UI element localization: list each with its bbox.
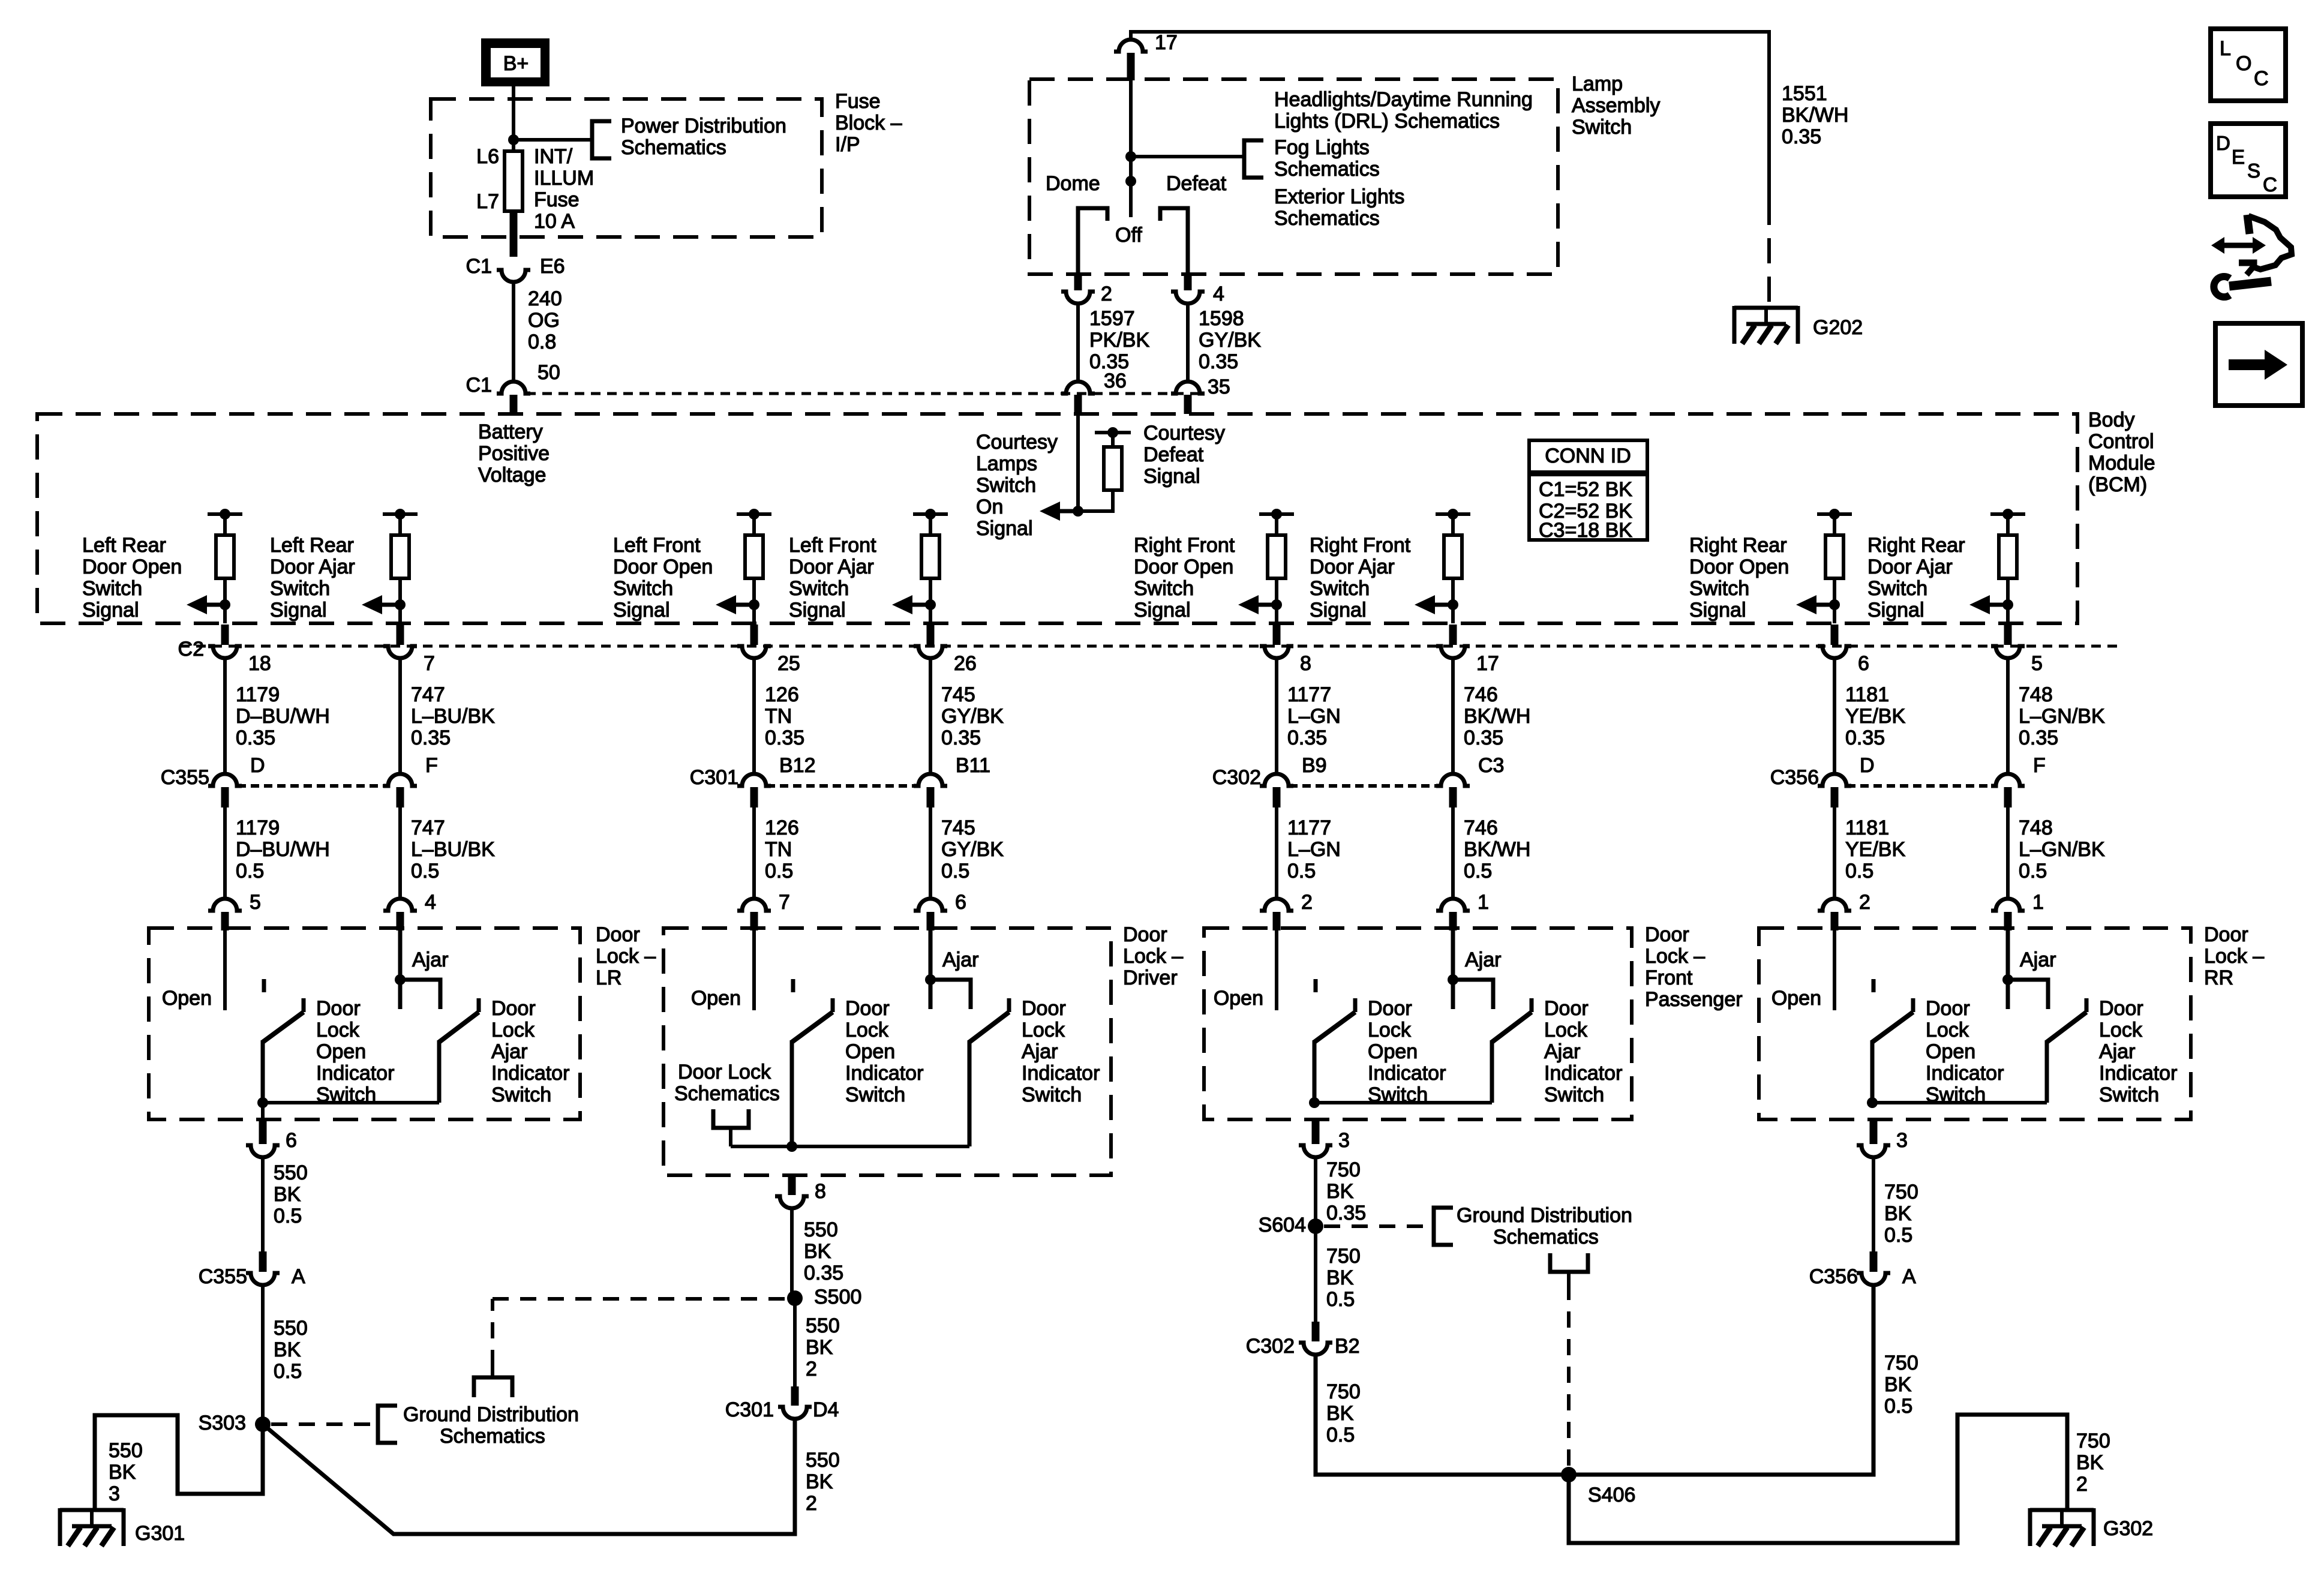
svg-text:0.35: 0.35: [941, 727, 981, 749]
svg-text:B11: B11: [956, 754, 990, 777]
connector row2 pin D: [1818, 774, 1851, 786]
svg-text:E: E: [2232, 146, 2245, 168]
wire door lock RR to pin 3: [1870, 1121, 1878, 1144]
svg-text:Front: Front: [1645, 966, 1693, 989]
switch: door lock open indicator: [263, 979, 304, 1103]
wire 746 BK/WH 0.5: [1451, 807, 1455, 899]
svg-text:Control: Control: [2088, 430, 2154, 453]
arrow Left Rear Door Open signal: [187, 595, 225, 614]
svg-text:26: 26: [954, 652, 977, 675]
svg-text:Switch: Switch: [270, 577, 330, 600]
svg-text:0.35: 0.35: [1287, 727, 1327, 749]
svg-text:Indicator: Indicator: [1544, 1062, 1622, 1085]
svg-text:0.5: 0.5: [1884, 1395, 1912, 1418]
svg-text:D–BU/WH: D–BU/WH: [236, 705, 330, 728]
svg-text:Signal: Signal: [270, 599, 327, 622]
svg-text:Switch: Switch: [976, 474, 1036, 497]
connector pin 2: [1074, 275, 1082, 290]
svg-text:Indicator: Indicator: [491, 1062, 569, 1085]
connector row2 pin F: [1991, 774, 2025, 786]
svg-text:550: 550: [804, 1218, 838, 1241]
svg-text:BK/WH: BK/WH: [1464, 838, 1530, 861]
connector C2-row pin 8: [1273, 625, 1281, 645]
svg-text:0.5: 0.5: [1326, 1424, 1355, 1446]
wire 747 L–BU/BK 0.5: [398, 807, 402, 899]
wire 1179 D–BU/WH 0.5: [223, 807, 227, 899]
connector C2-row pin 25: [750, 625, 758, 645]
svg-text:17: 17: [1476, 652, 1499, 675]
connector row2 pin B12: [737, 774, 771, 786]
svg-text:BK/WH: BK/WH: [1782, 104, 1848, 127]
svg-text:Signal: Signal: [1867, 599, 1924, 622]
svg-text:Open: Open: [1926, 1040, 1975, 1063]
node S604: [1308, 1218, 1323, 1234]
svg-text:BK: BK: [109, 1461, 136, 1484]
connector C2-row pin 17: [1449, 625, 1457, 645]
svg-text:126: 126: [765, 816, 799, 839]
svg-text:6: 6: [1858, 652, 1869, 675]
svg-text:Switch: Switch: [1572, 116, 1632, 139]
wire 550 BK 0.5: [261, 1157, 265, 1251]
connector door-lock pin 1: [1436, 899, 1470, 911]
svg-text:BK: BK: [1884, 1373, 1912, 1396]
svg-text:747: 747: [411, 683, 445, 706]
svg-text:1181: 1181: [1845, 683, 1889, 706]
svg-text:C301: C301: [725, 1398, 774, 1421]
svg-text:Door: Door: [2099, 997, 2143, 1020]
fuse block I/P dashed box: [431, 99, 822, 237]
svg-text:Lamp: Lamp: [1572, 73, 1623, 95]
callout bracket: Ground Distribution Schematics (left): [378, 1406, 397, 1443]
svg-text:Signal: Signal: [1134, 599, 1191, 622]
svg-text:1: 1: [2032, 891, 2044, 914]
svg-text:I/P: I/P: [835, 133, 860, 156]
svg-text:Switch: Switch: [491, 1083, 551, 1106]
svg-text:Courtesy: Courtesy: [1143, 422, 1225, 445]
svg-text:Signal: Signal: [82, 599, 139, 622]
svg-text:Door: Door: [1645, 923, 1689, 946]
svg-text:0.5: 0.5: [1845, 860, 1873, 882]
wire 550 BK 0.5: [261, 1285, 265, 1424]
svg-text:0.35: 0.35: [1845, 727, 1885, 749]
svg-text:D: D: [2216, 132, 2230, 154]
svg-text:Door Ajar: Door Ajar: [1867, 556, 1953, 578]
svg-text:5: 5: [2031, 652, 2043, 675]
connector C2-row pin 26: [927, 625, 935, 645]
svg-text:Switch: Switch: [1689, 577, 1749, 600]
svg-text:0.5: 0.5: [236, 860, 264, 882]
BCM input branch pin 25: Left Front Door Open: [737, 509, 771, 623]
svg-text:Switch: Switch: [1022, 1083, 1082, 1106]
wire 1598 GY/BK 0.35: [1186, 304, 1190, 383]
svg-text:Dome: Dome: [1046, 172, 1100, 195]
svg-text:O: O: [2236, 52, 2251, 75]
svg-text:C301: C301: [690, 766, 738, 789]
svg-text:YE/BK: YE/BK: [1845, 705, 1905, 728]
svg-text:750: 750: [2076, 1430, 2110, 1452]
svg-text:Lock: Lock: [1022, 1019, 1065, 1041]
svg-text:Indicator: Indicator: [316, 1062, 394, 1085]
svg-text:L–GN: L–GN: [1287, 705, 1341, 728]
callout bracket: Ground Distribution Schematics (right): [1434, 1208, 1453, 1245]
svg-text:C1: C1: [466, 255, 492, 278]
wire door ajar signal with contact: [930, 928, 971, 1009]
connector C355 pin A: [259, 1251, 267, 1272]
svg-text:On: On: [976, 496, 1003, 518]
svg-text:D4: D4: [813, 1398, 839, 1421]
svg-text:1597: 1597: [1089, 307, 1135, 330]
svg-text:C3=18 BK: C3=18 BK: [1539, 519, 1632, 542]
svg-text:Power Distribution: Power Distribution: [621, 115, 786, 137]
svg-text:LR: LR: [596, 966, 621, 989]
svg-text:550: 550: [806, 1449, 840, 1472]
svg-text:17: 17: [1155, 31, 1178, 54]
connector pin 3: [1857, 1145, 1890, 1157]
connector row2 pin D: [208, 774, 242, 786]
connector C301 dashed line: [767, 784, 917, 788]
switch common bus: [731, 1145, 969, 1148]
connector door-lock pin 2: [1818, 899, 1851, 911]
switch common bus: [1872, 1101, 2047, 1104]
wire 240 OG 0.8: [512, 282, 515, 380]
svg-text:Door Open: Door Open: [1689, 556, 1789, 578]
callout bracket to Door Lock Schematics: [713, 1109, 749, 1128]
wire resistor to terminal bar: [1111, 433, 1115, 447]
svg-text:C355: C355: [199, 1265, 247, 1288]
svg-text:C355: C355: [161, 766, 209, 789]
connector C1 pin E6: [497, 270, 530, 282]
svg-text:Door: Door: [1544, 997, 1589, 1020]
wire 126 TN 0.35: [752, 658, 756, 774]
svg-text:2: 2: [1101, 283, 1112, 305]
wire to fog lights callout: [1131, 155, 1244, 158]
svg-text:Open: Open: [1771, 987, 1821, 1010]
arrow Left Front Door Open signal: [716, 595, 754, 614]
arrow Right Front Door Open signal: [1238, 595, 1277, 614]
dashed callout from S303: [271, 1422, 373, 1426]
switch: door lock ajar indicator: [2047, 998, 2086, 1103]
arrow Left Rear Door Ajar signal: [362, 595, 400, 614]
connector C1 pin 35: [1171, 382, 1205, 394]
connector door-lock pin 4: [383, 899, 417, 911]
wire door open signal (ends at open contact): [1275, 928, 1278, 1010]
svg-text:C3: C3: [1478, 754, 1504, 777]
svg-text:2: 2: [1859, 891, 1870, 914]
svg-text:C302: C302: [1246, 1335, 1295, 1358]
svg-text:Door Ajar: Door Ajar: [1310, 556, 1395, 578]
svg-text:2: 2: [806, 1358, 817, 1380]
icon LOC: [2211, 29, 2286, 101]
svg-text:Door: Door: [491, 997, 536, 1020]
wire to defeat resistor: [1078, 509, 1113, 513]
svg-text:Lock: Lock: [491, 1019, 535, 1041]
arrow Right Front Door Ajar signal: [1415, 595, 1453, 614]
svg-text:S406: S406: [1588, 1484, 1635, 1506]
wire lamp switch common: [1129, 79, 1133, 217]
svg-text:Indicator: Indicator: [845, 1062, 923, 1085]
wire pin17 to G202 branch (top run): [1129, 32, 1133, 40]
svg-text:Door: Door: [1926, 997, 1970, 1020]
svg-text:2: 2: [806, 1492, 817, 1515]
node S406: [1561, 1467, 1577, 1482]
svg-text:0.5: 0.5: [1464, 860, 1492, 882]
svg-text:PK/BK: PK/BK: [1089, 329, 1149, 352]
svg-text:Switch: Switch: [845, 1083, 905, 1106]
svg-text:BK: BK: [804, 1240, 831, 1263]
wire 745 GY/BK 0.5: [929, 807, 932, 899]
svg-text:BK: BK: [2076, 1451, 2104, 1474]
svg-text:A: A: [292, 1265, 305, 1288]
wire door ajar signal with contact: [2008, 928, 2048, 1009]
dashed link text to S500: [491, 1299, 494, 1366]
svg-text:2: 2: [2076, 1473, 2088, 1496]
svg-text:Ajar: Ajar: [1544, 1040, 1580, 1063]
svg-text:0.35: 0.35: [804, 1262, 843, 1284]
svg-text:746: 746: [1464, 683, 1498, 706]
svg-text:748: 748: [2019, 816, 2053, 839]
svg-text:GY/BK: GY/BK: [1199, 329, 1261, 352]
svg-text:Module: Module: [2088, 452, 2155, 475]
svg-text:G202: G202: [1813, 316, 1863, 339]
Body Control Module dashed box: [37, 414, 2077, 623]
svg-text:C2: C2: [178, 638, 204, 661]
svg-text:Right Rear: Right Rear: [1867, 534, 1965, 557]
svg-text:3: 3: [1338, 1129, 1350, 1152]
wire door lock front passenger to pin 3: [1312, 1121, 1320, 1144]
svg-text:G301: G301: [135, 1522, 185, 1545]
BCM input branch pin 6: Right Rear Door Open: [1817, 509, 1852, 623]
svg-text:Fuse: Fuse: [534, 188, 580, 211]
svg-text:Defeat: Defeat: [1143, 443, 1204, 466]
svg-text:1: 1: [1478, 891, 1489, 914]
svg-text:Right Rear: Right Rear: [1689, 534, 1787, 557]
svg-text:0.5: 0.5: [1326, 1288, 1355, 1311]
svg-text:Open: Open: [1214, 987, 1263, 1010]
wire 748 L–GN/BK 0.5: [2006, 807, 2010, 899]
svg-text:Battery: Battery: [478, 421, 543, 443]
BCM input branch pin 18: Left Rear Door Open: [208, 509, 242, 623]
callout bracket: Fog Lights Schematics: [1244, 140, 1263, 178]
svg-text:750: 750: [1326, 1380, 1361, 1403]
svg-text:Signal: Signal: [789, 599, 846, 622]
power symbol B+: [481, 38, 550, 86]
connector pin 4: [1184, 275, 1192, 290]
wire fuse to connector C1-E6: [510, 213, 518, 257]
terminal bar with node: [1095, 431, 1131, 434]
svg-text:BK: BK: [1326, 1266, 1354, 1289]
svg-text:Door Open: Door Open: [82, 556, 182, 578]
wire 1177 L–GN 0.5: [1275, 807, 1278, 899]
svg-text:G302: G302: [2103, 1517, 2153, 1540]
svg-text:L–GN/BK: L–GN/BK: [2019, 838, 2105, 861]
connector row2 pin B11: [914, 774, 947, 786]
BCM input branch pin 5: Right Rear Door Ajar: [1990, 509, 2025, 623]
svg-text:4: 4: [1213, 283, 1224, 305]
svg-text:0.5: 0.5: [941, 860, 969, 882]
wire B+ to fuse block: [512, 86, 515, 151]
svg-text:Left Front: Left Front: [789, 534, 876, 557]
svg-text:Ajar: Ajar: [942, 948, 978, 971]
lamp assembly switch dashed box: [1029, 79, 1558, 274]
node S500: [787, 1290, 803, 1306]
svg-text:Off: Off: [1115, 224, 1142, 247]
arrow courtesy lamps switch on signal: [1040, 502, 1078, 521]
svg-text:Right Front: Right Front: [1310, 534, 1411, 557]
svg-text:3: 3: [1896, 1129, 1908, 1152]
arrow Right Rear Door Ajar signal: [1969, 595, 2008, 614]
node: switch common junction: [1309, 1097, 1320, 1108]
fuse INT/ILLUM 10A (L6/L7): [505, 151, 523, 211]
svg-text:1551: 1551: [1782, 82, 1827, 105]
wire door lock LR to connector pin 6: [261, 1103, 265, 1119]
svg-text:Signal: Signal: [976, 517, 1033, 540]
svg-text:Signal: Signal: [1689, 599, 1746, 622]
switch common bus: [263, 1101, 439, 1104]
connector row2 pin B9: [1260, 774, 1293, 786]
svg-text:Ground Distribution: Ground Distribution: [1457, 1204, 1632, 1227]
svg-text:Ajar: Ajar: [1022, 1040, 1058, 1063]
connector C2-row pin 18: [221, 625, 229, 645]
icon wrench/diagnostic: [2211, 215, 2292, 297]
svg-text:Schematics: Schematics: [621, 136, 726, 159]
svg-text:L–GN: L–GN: [1287, 838, 1341, 861]
svg-text:Ajar: Ajar: [491, 1040, 527, 1063]
wire 1177 L–GN 0.35: [1275, 658, 1278, 774]
svg-text:ILLUM: ILLUM: [534, 167, 594, 190]
svg-text:Right Front: Right Front: [1134, 534, 1235, 557]
svg-text:BK: BK: [1884, 1202, 1912, 1225]
connector row2 pin C3: [1436, 774, 1470, 786]
svg-text:C: C: [2254, 67, 2269, 90]
svg-text:Door: Door: [1123, 923, 1167, 946]
svg-text:OG: OG: [528, 309, 560, 332]
svg-text:Door Ajar: Door Ajar: [270, 556, 355, 578]
connector pin 3: [1299, 1145, 1332, 1157]
wire 750 BK 0.35: [1314, 1157, 1317, 1226]
svg-text:2: 2: [1301, 891, 1313, 914]
svg-text:0.5: 0.5: [274, 1205, 302, 1227]
svg-text:F: F: [425, 754, 438, 777]
wire 550 BK 2: [793, 1298, 797, 1386]
svg-text:6: 6: [955, 891, 966, 914]
svg-text:RR: RR: [2204, 966, 2233, 989]
svg-text:Left Front: Left Front: [613, 534, 701, 557]
svg-text:Ajar: Ajar: [1465, 948, 1501, 971]
svg-text:D: D: [1860, 754, 1875, 777]
connector door-lock pin 1: [1991, 899, 2025, 911]
svg-text:Ajar: Ajar: [2099, 1040, 2135, 1063]
connector C2-row pin 6: [1831, 625, 1839, 645]
dashed callout from S604: [1324, 1224, 1429, 1228]
callout bracket below text toward S406: [1550, 1253, 1588, 1272]
connector C302 pin B2: [1312, 1322, 1320, 1341]
BCM input branch pin 26: Left Front Door Ajar: [913, 509, 948, 623]
svg-text:C356: C356: [1809, 1265, 1858, 1288]
svg-text:F: F: [2033, 754, 2046, 777]
svg-text:Body: Body: [2088, 409, 2135, 431]
svg-text:750: 750: [1326, 1245, 1361, 1268]
node: switch common junction: [257, 1097, 268, 1108]
svg-text:Door: Door: [845, 997, 890, 1020]
resistor courtesy defeat: [1104, 447, 1122, 490]
svg-text:B12: B12: [779, 754, 816, 777]
svg-text:4: 4: [425, 891, 436, 914]
svg-text:0.5: 0.5: [411, 860, 439, 882]
svg-text:126: 126: [765, 683, 799, 706]
BCM input branch pin 17: Right Front Door Ajar: [1436, 509, 1470, 623]
svg-text:Open: Open: [691, 987, 741, 1010]
svg-text:750: 750: [1884, 1181, 1918, 1203]
svg-text:BK: BK: [806, 1470, 833, 1493]
svg-text:Switch: Switch: [1544, 1083, 1604, 1106]
svg-text:750: 750: [1884, 1352, 1918, 1374]
wire courtesy lamps switch signal: [1076, 414, 1080, 511]
svg-text:550: 550: [109, 1439, 143, 1462]
node S303: [255, 1416, 271, 1432]
svg-text:1179: 1179: [236, 816, 280, 839]
svg-text:BK: BK: [274, 1338, 301, 1361]
door lock box: Door Lock – RR: [1759, 928, 2191, 1119]
svg-text:750: 750: [1326, 1158, 1361, 1181]
switch: door lock ajar indicator: [439, 998, 479, 1103]
svg-text:1177: 1177: [1287, 683, 1331, 706]
svg-text:1598: 1598: [1199, 307, 1244, 330]
svg-text:S604: S604: [1259, 1214, 1306, 1236]
dashed link to S406: [1567, 1284, 1571, 1467]
svg-text:Switch: Switch: [82, 577, 142, 600]
wire door open signal (ends at open contact): [223, 928, 227, 1010]
svg-text:6: 6: [286, 1129, 297, 1152]
connector row2 pin F: [383, 774, 417, 786]
svg-text:0.5: 0.5: [1884, 1224, 1912, 1247]
svg-text:Door Ajar: Door Ajar: [789, 556, 874, 578]
svg-text:10 A: 10 A: [534, 210, 575, 233]
svg-text:746: 746: [1464, 816, 1498, 839]
svg-text:Door: Door: [596, 923, 640, 946]
svg-text:3: 3: [109, 1482, 120, 1505]
wire 750 BK 0.5: [1872, 1157, 1875, 1251]
svg-text:1181: 1181: [1845, 816, 1889, 839]
wire door open signal (ends at open contact): [1833, 928, 1836, 1010]
svg-text:Lock: Lock: [1544, 1019, 1588, 1041]
wire 1181 YE/BK 0.5: [1833, 807, 1836, 899]
svg-text:Fog Lights: Fog Lights: [1274, 136, 1370, 159]
connector pin 8: [775, 1196, 809, 1208]
svg-text:C1: C1: [466, 374, 492, 397]
connector C356 pin A: [1870, 1251, 1878, 1272]
svg-text:25: 25: [777, 652, 800, 675]
svg-text:BK/WH: BK/WH: [1464, 705, 1530, 728]
connector C2-row pin 7: [397, 625, 404, 645]
svg-text:8: 8: [1300, 652, 1311, 675]
svg-text:CONN ID: CONN ID: [1545, 445, 1631, 467]
connector pin 6: [246, 1145, 280, 1157]
svg-text:Door Open: Door Open: [1134, 556, 1233, 578]
svg-text:Switch: Switch: [613, 577, 673, 600]
svg-text:YE/BK: YE/BK: [1845, 838, 1905, 861]
svg-text:Defeat: Defeat: [1166, 172, 1227, 195]
svg-text:Left Rear: Left Rear: [270, 534, 354, 557]
svg-text:BK: BK: [1326, 1402, 1354, 1425]
svg-text:C302: C302: [1212, 766, 1261, 789]
switch common bus: [1314, 1101, 1492, 1104]
svg-text:Positive: Positive: [478, 442, 550, 465]
switch: door lock open indicator: [1314, 979, 1355, 1103]
wire 747 L–BU/BK 0.35: [398, 658, 402, 774]
svg-text:Open: Open: [162, 987, 212, 1010]
svg-text:Headlights/Daytime Running: Headlights/Daytime Running: [1274, 88, 1533, 111]
icon DESC: [2211, 124, 2286, 197]
